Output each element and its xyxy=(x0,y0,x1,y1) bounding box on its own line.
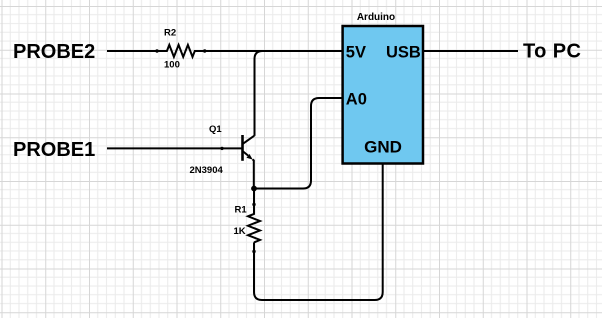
svg-text:Arduino: Arduino xyxy=(357,12,395,23)
svg-text:1K: 1K xyxy=(234,226,246,237)
svg-text:To PC: To PC xyxy=(523,41,581,63)
svg-text:100: 100 xyxy=(164,60,180,71)
wire: branch from top net down to Q1 collector xyxy=(255,51,263,136)
svg-text:R2: R2 xyxy=(164,28,176,39)
wire: PROBE2 to 5V (top net) xyxy=(107,45,343,57)
wire: USB to PC xyxy=(423,50,518,52)
wire: R1 bottom to GND pin xyxy=(254,164,383,301)
svg-text:2N3904: 2N3904 xyxy=(190,165,224,176)
svg-text:USB: USB xyxy=(386,43,421,61)
node junction (emitter / R1 / A0) xyxy=(251,186,257,192)
resistor R2 xyxy=(155,49,206,52)
svg-text:R1: R1 xyxy=(235,204,248,215)
resistor R1 xyxy=(248,189,260,254)
svg-text:5V: 5V xyxy=(346,43,366,61)
svg-text:Q1: Q1 xyxy=(209,124,222,135)
svg-text:PROBE2: PROBE2 xyxy=(13,41,95,63)
transistor Q1 (2N3904 NPN) xyxy=(243,135,255,189)
IC Arduino xyxy=(343,26,423,164)
svg-text:GND: GND xyxy=(364,138,402,157)
svg-text:PROBE1: PROBE1 xyxy=(13,139,95,161)
svg-text:A0: A0 xyxy=(346,90,367,108)
wire: PROBE1 to Q1 base xyxy=(107,147,242,150)
wire: junction to A0 pin xyxy=(254,98,343,189)
